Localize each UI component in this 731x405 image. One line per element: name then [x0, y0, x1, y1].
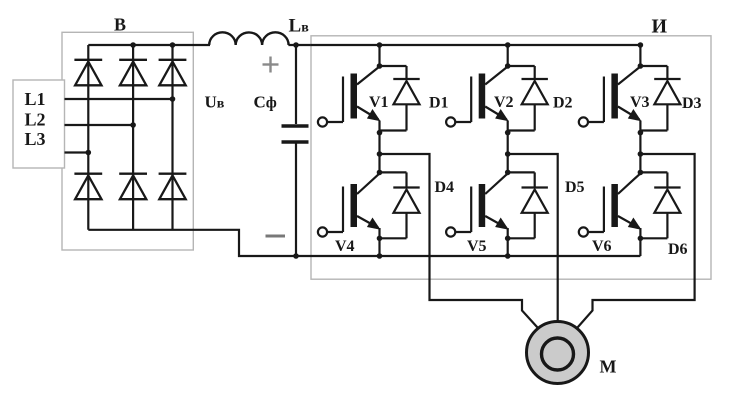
svg-text:D6: D6	[668, 241, 688, 258]
svg-text:L3: L3	[25, 129, 46, 149]
svg-text:V3: V3	[630, 94, 650, 111]
svg-text:V6: V6	[592, 238, 612, 255]
svg-text:V5: V5	[467, 238, 487, 255]
svg-text:D3: D3	[682, 95, 702, 112]
svg-text:D5: D5	[565, 179, 585, 196]
svg-text:L2: L2	[25, 110, 46, 130]
svg-text:D4: D4	[435, 179, 455, 196]
svg-text:L1: L1	[25, 89, 46, 109]
svg-text:И: И	[652, 16, 668, 38]
svg-text:D2: D2	[553, 95, 573, 112]
svg-text:V2: V2	[494, 94, 514, 111]
svg-text:V4: V4	[335, 238, 355, 255]
svg-text:М: М	[600, 357, 617, 377]
svg-text:V1: V1	[369, 94, 389, 111]
svg-text:Lв: Lв	[289, 16, 310, 37]
svg-text:D1: D1	[429, 95, 449, 112]
svg-text:Uв: Uв	[205, 93, 225, 112]
svg-text:В: В	[114, 15, 126, 35]
svg-text:Сф: Сф	[254, 93, 277, 112]
